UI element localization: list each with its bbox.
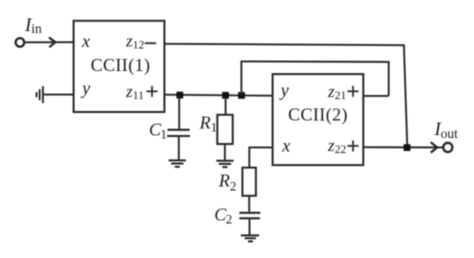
wire ground to y pin <box>44 94 74 96</box>
current conveyor CCII(2) body <box>273 74 364 165</box>
arrow output current direction <box>431 142 438 152</box>
node D junction (output) <box>404 144 411 151</box>
svg-text:out: out <box>441 126 459 141</box>
wire z11 output bus <box>164 95 272 96</box>
svg-text:z: z <box>327 82 335 101</box>
svg-text:z: z <box>327 136 335 155</box>
svg-text:11: 11 <box>133 90 144 102</box>
wire z12 output top line <box>164 44 407 148</box>
ground (C1) <box>169 160 186 166</box>
svg-text:x: x <box>81 31 90 51</box>
output terminal Iout <box>443 143 452 152</box>
svg-text:in: in <box>31 21 42 36</box>
arrow input current direction <box>49 37 55 47</box>
node A junction (C1) <box>176 92 183 99</box>
svg-text:x: x <box>281 135 290 155</box>
ground (C2) <box>241 235 259 241</box>
svg-text:z: z <box>125 32 133 51</box>
svg-text:2: 2 <box>226 212 233 227</box>
node B junction (R1) <box>222 92 229 99</box>
input terminal Iin <box>16 38 25 47</box>
ground (R1) <box>216 161 233 167</box>
svg-text:12: 12 <box>133 40 145 52</box>
svg-text:R: R <box>218 170 230 190</box>
wire feedback z21 to node C <box>241 61 388 96</box>
resistor R1 <box>217 99 232 160</box>
svg-text:CCII(1): CCII(1) <box>91 55 151 76</box>
node C junction (feedback) <box>238 92 245 99</box>
svg-text:y: y <box>279 80 289 100</box>
svg-text:R: R <box>199 113 211 133</box>
resistor R2 <box>242 168 256 212</box>
wire z22 output to Iout <box>363 146 443 148</box>
svg-text:z: z <box>125 82 133 101</box>
svg-text:2: 2 <box>230 179 237 194</box>
svg-text:22: 22 <box>335 144 347 156</box>
wire z21 output <box>363 95 388 97</box>
svg-text:CCII(2): CCII(2) <box>288 104 348 125</box>
wire x pin of CCII(2) to R2 <box>249 147 272 167</box>
svg-text:1: 1 <box>160 127 167 142</box>
current conveyor CCII(1) body <box>74 21 165 112</box>
capacitor C2 <box>239 213 260 235</box>
svg-text:1: 1 <box>211 120 218 135</box>
ground (y input of CCII(1), rotated) <box>37 86 43 103</box>
svg-text:21: 21 <box>335 90 347 102</box>
capacitor C1 <box>167 95 190 160</box>
svg-text:y: y <box>80 78 90 98</box>
wire input to x pin <box>25 41 74 43</box>
